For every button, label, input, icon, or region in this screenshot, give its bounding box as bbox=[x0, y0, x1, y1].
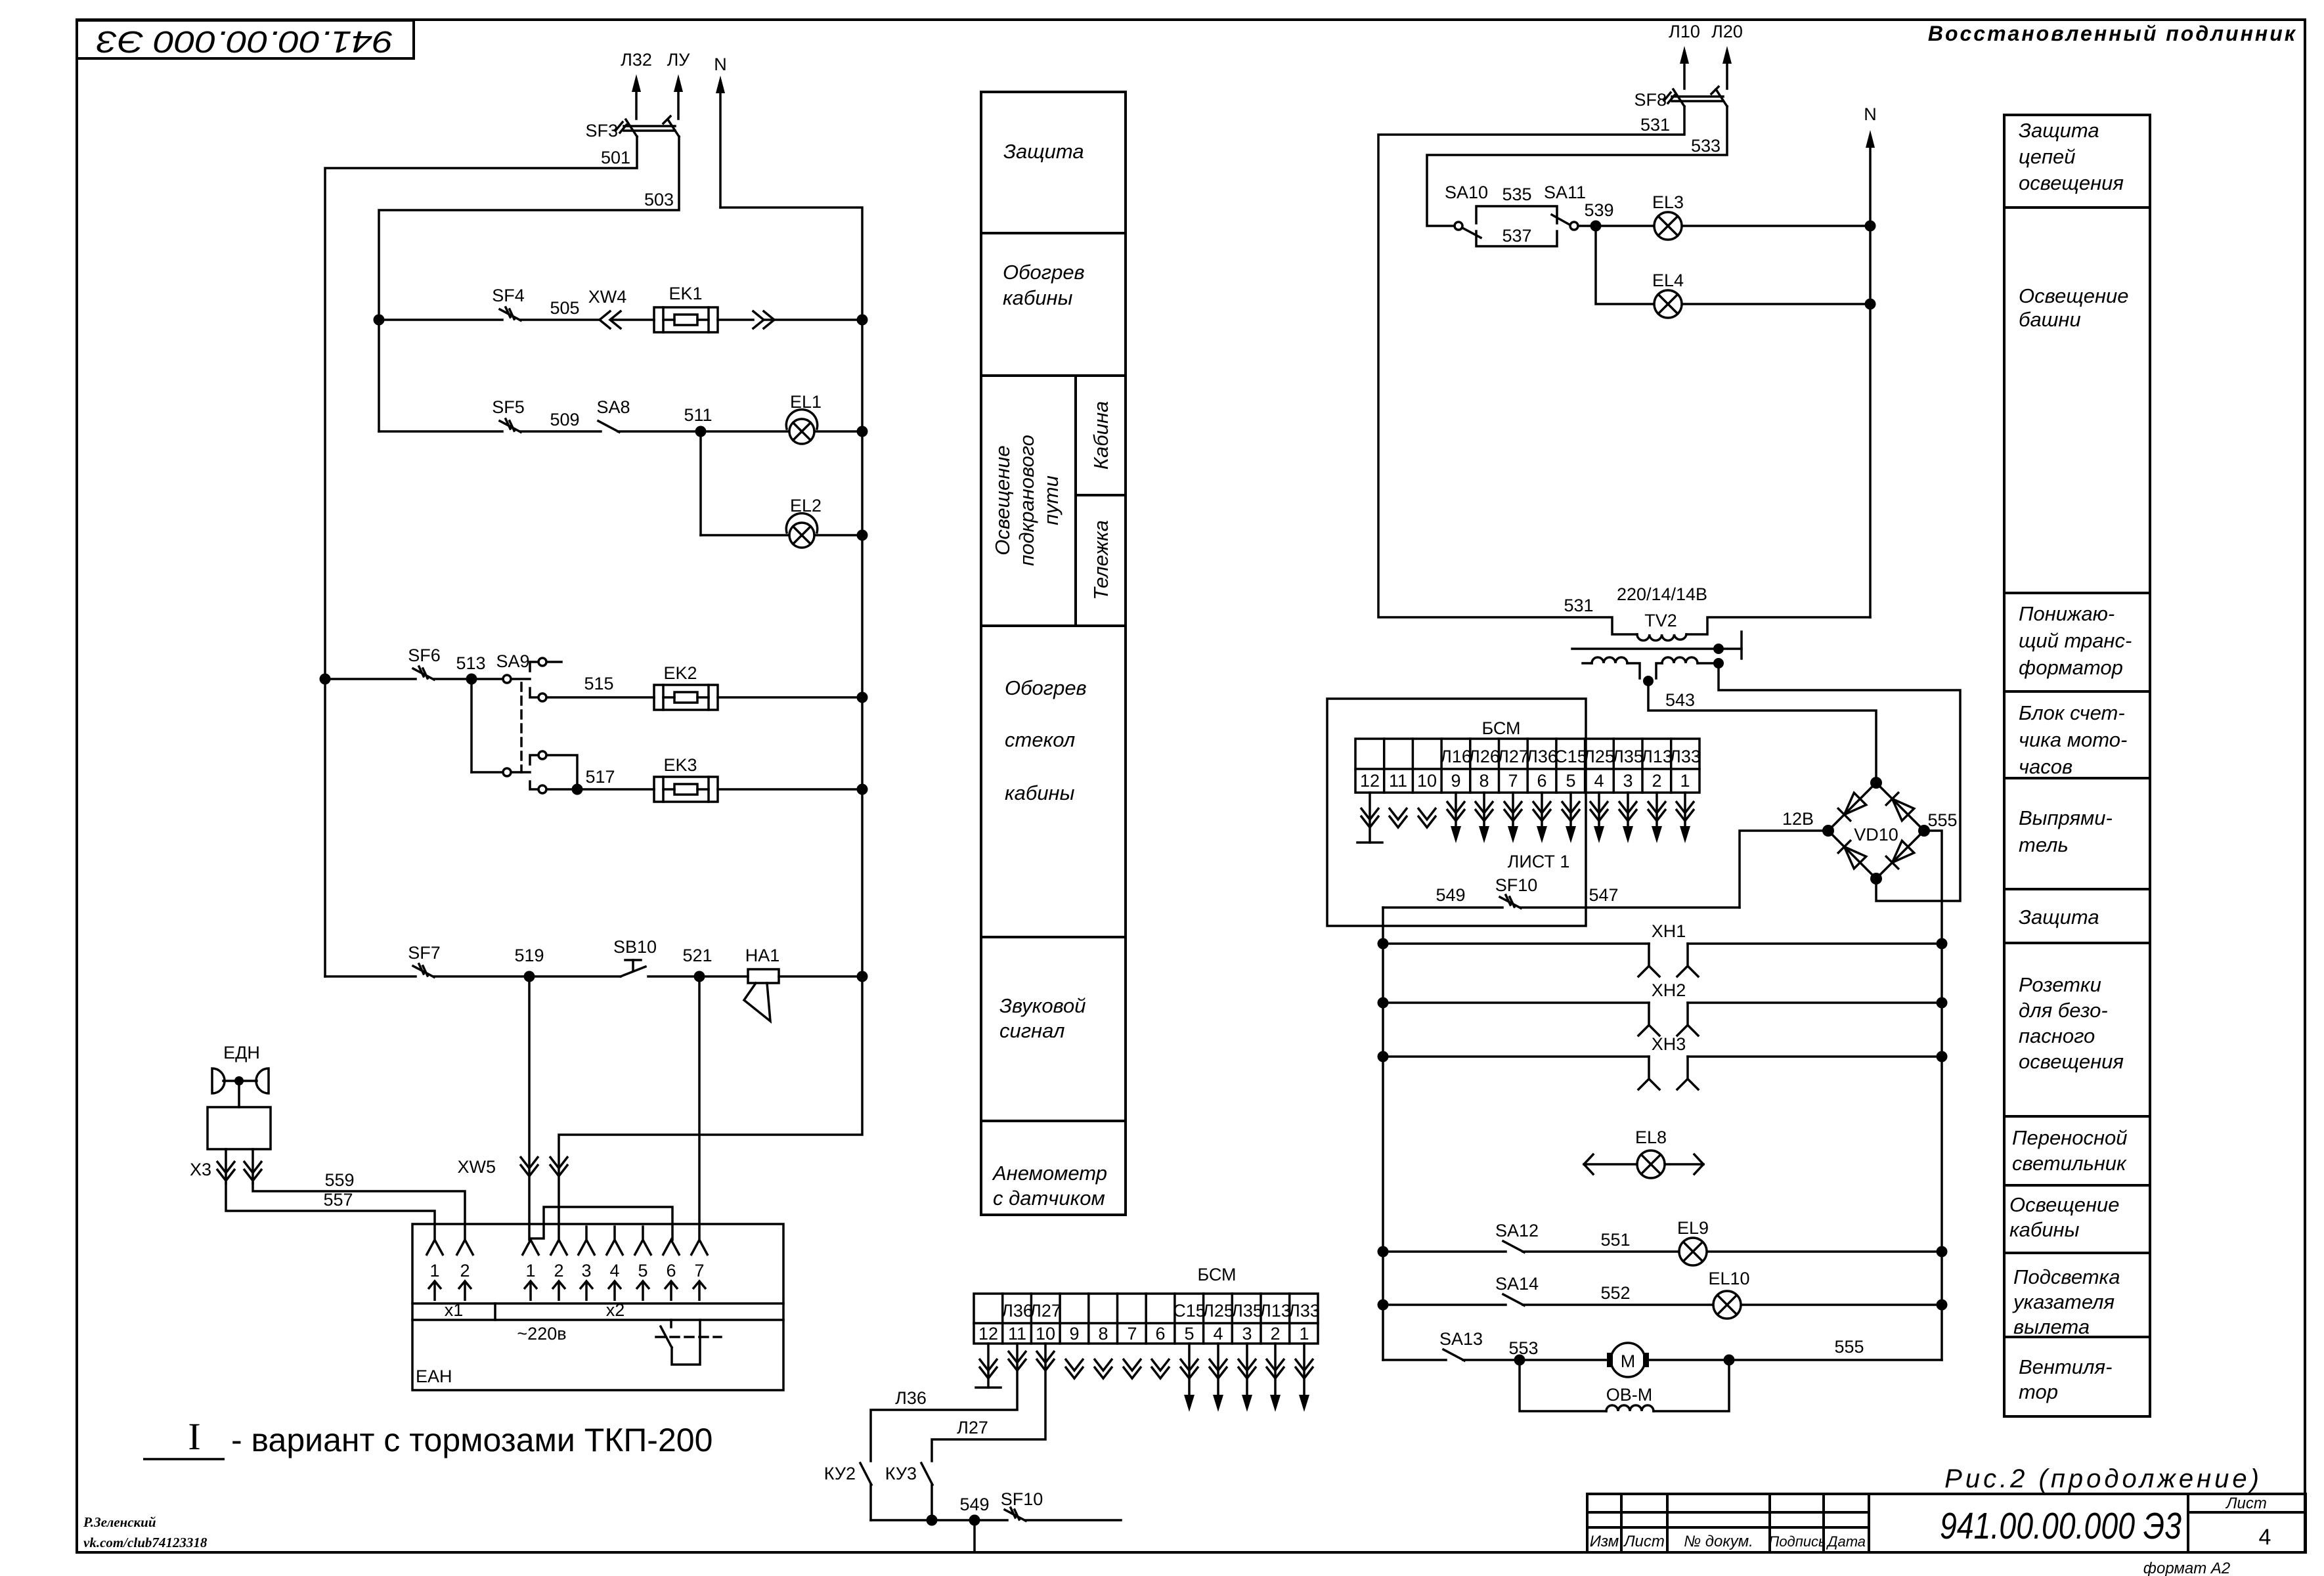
svg-text:2: 2 bbox=[1652, 771, 1661, 791]
svg-text:тор: тор bbox=[2019, 1380, 2058, 1403]
svg-text:№ докум.: № докум. bbox=[1684, 1533, 1753, 1550]
svg-text:539: 539 bbox=[1584, 200, 1613, 220]
rail 535 bbox=[1476, 206, 1557, 223]
svg-text:Подсветка: Подсветка bbox=[2013, 1265, 2120, 1288]
svg-text:XH3: XH3 bbox=[1652, 1034, 1686, 1054]
junction node (2106,1609) bbox=[1378, 1051, 1389, 1062]
pin 12 ground bbox=[1357, 793, 1382, 843]
wire N to right rail bbox=[559, 208, 862, 1240]
svg-text:стекол: стекол bbox=[1005, 728, 1075, 751]
svg-text:941.00.00.000 Э3: 941.00.00.000 Э3 bbox=[96, 25, 393, 59]
svg-text:Рис.2 (продолжение): Рис.2 (продолжение) bbox=[1944, 1464, 2262, 1493]
svg-text:543: 543 bbox=[1665, 690, 1695, 710]
svg-text:часов: часов bbox=[2019, 755, 2072, 778]
svg-text:5: 5 bbox=[638, 1261, 647, 1280]
junction node (1313,657) bbox=[857, 426, 868, 437]
svg-text:EL3: EL3 bbox=[1652, 192, 1684, 212]
svg-text:4: 4 bbox=[609, 1261, 619, 1280]
pins 9..1 stems with arrows bbox=[1456, 793, 1685, 829]
svg-text:форматор: форматор bbox=[2019, 656, 2123, 679]
junction node (2106,1437) bbox=[1378, 938, 1389, 950]
node КУ3 / bus 549 bbox=[927, 1515, 938, 1526]
node Л10 (arrow up) bbox=[1683, 62, 1686, 89]
svg-text:С15: С15 bbox=[1173, 1301, 1206, 1321]
pin 12 ground bbox=[976, 1344, 1001, 1388]
svg-text:549: 549 bbox=[959, 1495, 989, 1514]
svg-text:Л10: Л10 bbox=[1669, 22, 1700, 41]
svg-text:553: 553 bbox=[1508, 1338, 1538, 1358]
svg-text:щий транс-: щий транс- bbox=[2019, 629, 2132, 652]
svg-text:светильник: светильник bbox=[2012, 1152, 2127, 1175]
svg-text:511: 511 bbox=[684, 405, 712, 425]
svg-text:EL9: EL9 bbox=[1677, 1218, 1709, 1238]
svg-text:1: 1 bbox=[1299, 1324, 1309, 1344]
diode top-left bbox=[1845, 793, 1866, 814]
svg-text:Звуковой: Звуковой bbox=[999, 994, 1086, 1017]
branch SA13 / fan motor bbox=[1383, 1359, 1446, 1361]
lamp EL3 bbox=[1654, 212, 1682, 240]
transformer TV2 secondary right bbox=[1656, 663, 1662, 678]
branch SF7 horn: wire 519/521 bbox=[325, 975, 416, 978]
transformer TV2 primary bbox=[1637, 634, 1686, 640]
node on left rail at SF6 bbox=[320, 674, 331, 685]
svg-text:Р.Зеленский: Р.Зеленский bbox=[83, 1514, 156, 1530]
svg-text:10: 10 bbox=[1417, 771, 1437, 791]
wire 503 bbox=[379, 137, 679, 431]
svg-text:Розетки: Розетки bbox=[2019, 973, 2101, 996]
svg-text:ЕДН: ЕДН bbox=[223, 1043, 260, 1062]
svg-text:ЛУ: ЛУ bbox=[667, 50, 691, 70]
svg-text:ЕАН: ЕАН bbox=[416, 1367, 452, 1386]
right function table bbox=[2004, 115, 2150, 1416]
field winding ОВ-М bbox=[1520, 1360, 1606, 1411]
svg-text:941.00.00.000 Э3: 941.00.00.000 Э3 bbox=[1940, 1505, 2181, 1547]
svg-text:515: 515 bbox=[584, 674, 613, 693]
transformer TV2 junction dots bbox=[1590, 221, 1876, 687]
svg-text:Защита: Защита bbox=[2019, 119, 2099, 142]
ЕАН block bbox=[412, 1207, 783, 1390]
svg-text:пути: пути bbox=[1040, 475, 1063, 525]
leads to connector X3 bbox=[225, 1149, 227, 1183]
svg-text:башни: башни bbox=[2019, 308, 2081, 331]
junction dots left circuit bbox=[320, 315, 868, 982]
svg-text:EL8: EL8 bbox=[1635, 1127, 1667, 1147]
node N (arrow up, left circuit neutral) bbox=[719, 91, 722, 208]
svg-text:SA10: SA10 bbox=[1445, 183, 1488, 202]
switch SA11 bbox=[1552, 215, 1569, 225]
svg-text:Л36: Л36 bbox=[895, 1388, 927, 1408]
branch EK1: wire 505 bbox=[379, 318, 502, 321]
branch EL1: wire 509 bbox=[379, 430, 502, 433]
connector table БСМ upper bbox=[1355, 739, 1699, 793]
svg-text:Л25: Л25 bbox=[1583, 747, 1615, 766]
svg-text:SF10: SF10 bbox=[1495, 875, 1538, 895]
svg-text:505: 505 bbox=[550, 298, 579, 318]
svg-text:513: 513 bbox=[456, 653, 485, 673]
heater EK3 bbox=[654, 777, 718, 802]
svg-text:EL10: EL10 bbox=[1708, 1269, 1749, 1288]
wire 515 bbox=[547, 696, 654, 699]
svg-text:12: 12 bbox=[1360, 771, 1380, 791]
svg-text:6: 6 bbox=[1155, 1324, 1165, 1344]
svg-text:517: 517 bbox=[585, 767, 615, 787]
svg-text:521: 521 bbox=[682, 946, 712, 965]
svg-text:Восстановленный подлинник: Восстановленный подлинник bbox=[1928, 22, 2297, 45]
svg-text:М: М bbox=[1621, 1351, 1636, 1371]
svg-text:vk.com/club74123318: vk.com/club74123318 bbox=[83, 1535, 208, 1550]
svg-text:4: 4 bbox=[1594, 771, 1604, 791]
circuit breaker SF4 bbox=[500, 309, 521, 320]
svg-text:Выпрями-: Выпрями- bbox=[2019, 806, 2113, 829]
wire 539 to lamps bbox=[1578, 225, 1654, 227]
anemometer ЕДН symbol bbox=[212, 1068, 225, 1093]
circuit breaker SF5 bbox=[500, 421, 521, 432]
brake contact inside ЕАН bbox=[670, 1320, 672, 1327]
svg-text:SF7: SF7 bbox=[408, 943, 441, 963]
socket XH3 bbox=[1383, 1055, 1649, 1058]
wire 531 bbox=[1378, 106, 1684, 634]
wire Л27 to КУ3 bbox=[932, 1344, 1045, 1461]
svg-text:555: 555 bbox=[1927, 810, 1957, 830]
svg-text:Л36: Л36 bbox=[1001, 1301, 1033, 1321]
svg-text:Вентиля-: Вентиля- bbox=[2019, 1355, 2112, 1378]
svg-text:7: 7 bbox=[694, 1261, 704, 1280]
lamp EL10 bbox=[1713, 1291, 1741, 1319]
svg-text:SB10: SB10 bbox=[613, 937, 657, 957]
svg-text:Блок счет-: Блок счет- bbox=[2019, 701, 2125, 724]
node TV2 secondary right / core bbox=[1713, 644, 1724, 654]
node 517 bbox=[572, 784, 583, 795]
svg-text:547: 547 bbox=[1589, 885, 1618, 905]
svg-text:4: 4 bbox=[1213, 1324, 1223, 1344]
svg-text:кабины: кабины bbox=[1005, 781, 1075, 804]
node 543 (TV2 centre tap) bbox=[1643, 676, 1654, 686]
node N right (arrow up) bbox=[1869, 146, 1872, 617]
svg-text:Обогрев: Обогрев bbox=[1003, 261, 1085, 284]
junction node (1313,1202) bbox=[857, 784, 868, 795]
svg-text:Освещение: Освещение bbox=[2009, 1193, 2120, 1216]
svg-text:EL2: EL2 bbox=[790, 496, 822, 515]
svg-text:9: 9 bbox=[1069, 1324, 1079, 1344]
svg-text:Л36: Л36 bbox=[1526, 747, 1558, 766]
node 511 bbox=[695, 426, 707, 437]
svg-text:503: 503 bbox=[644, 190, 674, 209]
svg-text:Изм: Изм bbox=[1590, 1533, 1619, 1550]
junction node (2957,1987) bbox=[1937, 1300, 1948, 1311]
svg-text:Л13: Л13 bbox=[1641, 747, 1673, 766]
svg-text:10: 10 bbox=[1036, 1324, 1055, 1344]
junction node (2957,1906) bbox=[1937, 1246, 1948, 1258]
switch SA8 bbox=[598, 421, 619, 432]
svg-text:~220в: ~220в bbox=[517, 1324, 566, 1344]
svg-text:Л13: Л13 bbox=[1260, 1301, 1291, 1321]
circuit breaker SF10 (bottom) bbox=[1005, 1510, 1026, 1521]
pins 9..6 chevrons bbox=[1065, 1359, 1084, 1378]
svg-text:Л20: Л20 bbox=[1711, 22, 1743, 41]
svg-text:531: 531 bbox=[1640, 115, 1670, 135]
contact КУ3 bbox=[921, 1463, 932, 1485]
svg-text:кабины: кабины bbox=[2009, 1218, 2080, 1241]
svg-text:3: 3 bbox=[1623, 771, 1633, 791]
block БСМ outline bbox=[1327, 699, 1586, 926]
node 539 bbox=[1590, 221, 1602, 232]
svg-text:Защита: Защита bbox=[1003, 140, 1084, 163]
svg-text:Лист: Лист bbox=[2225, 1495, 2267, 1512]
svg-text:x1: x1 bbox=[445, 1300, 464, 1320]
svg-text:4: 4 bbox=[2259, 1525, 2271, 1550]
svg-text:Л35: Л35 bbox=[1231, 1301, 1263, 1321]
wire 555 output bbox=[1928, 831, 1942, 1360]
switch SA9 (upper deck) bbox=[475, 678, 502, 680]
circuit breaker SF10 bbox=[1500, 897, 1521, 908]
circuit breaker SF7 bbox=[413, 966, 434, 977]
wire 521 down to ЕАН pin bbox=[698, 976, 701, 1240]
svg-text:2: 2 bbox=[554, 1261, 563, 1280]
svg-text:519: 519 bbox=[514, 946, 544, 965]
svg-text:Л33: Л33 bbox=[1669, 747, 1701, 766]
svg-text:Л35: Л35 bbox=[1612, 747, 1644, 766]
rectifier VD10 diamond bbox=[1828, 783, 1924, 879]
wire 549 down to frame bbox=[973, 1520, 976, 1552]
motor M bbox=[1611, 1343, 1645, 1377]
svg-text:ЛИСТ 1: ЛИСТ 1 bbox=[1508, 852, 1570, 871]
svg-text:12В: 12В bbox=[1782, 809, 1814, 829]
junction node (2106,1906) bbox=[1378, 1246, 1389, 1258]
svg-text:12: 12 bbox=[978, 1324, 998, 1344]
svg-text:Л26: Л26 bbox=[1468, 747, 1500, 766]
svg-text:Защита: Защита bbox=[2019, 906, 2099, 929]
dashed link SA9 bbox=[520, 683, 523, 772]
svg-text:Обогрев: Обогрев bbox=[1005, 676, 1087, 699]
svg-text:SF4: SF4 bbox=[492, 286, 525, 305]
wire Л36 to КУ2 bbox=[860, 1344, 1121, 1552]
junction node (1313,1062) bbox=[857, 692, 868, 703]
svg-text:освещения: освещения bbox=[2019, 171, 2124, 194]
switch SA9 (lower deck) bbox=[471, 771, 502, 774]
circuit breaker SF6 bbox=[413, 668, 434, 680]
svg-text:вылета: вылета bbox=[2013, 1315, 2090, 1338]
svg-text:11: 11 bbox=[1008, 1324, 1026, 1344]
svg-text:11: 11 bbox=[1389, 771, 1407, 791]
connector X3 chevrons bbox=[217, 1161, 235, 1181]
svg-text:с датчиком: с датчиком bbox=[993, 1187, 1105, 1210]
svg-text:TV2: TV2 bbox=[1644, 611, 1677, 630]
svg-text:КУ3: КУ3 bbox=[885, 1464, 917, 1483]
svg-text:тель: тель bbox=[2019, 833, 2069, 856]
svg-text:5: 5 bbox=[1184, 1324, 1194, 1344]
svg-text:559: 559 bbox=[324, 1170, 354, 1190]
svg-text:8: 8 bbox=[1098, 1324, 1108, 1344]
svg-text:SA14: SA14 bbox=[1495, 1274, 1539, 1294]
wire 557 bbox=[226, 1183, 435, 1240]
junction node (2957,1609) bbox=[1937, 1051, 1948, 1062]
svg-text:указателя: указателя bbox=[2012, 1290, 2115, 1313]
wire 543 (center tap to VD10 top) bbox=[1648, 683, 1876, 783]
svg-text:2: 2 bbox=[1270, 1324, 1280, 1344]
node 503/EK1 bbox=[374, 315, 385, 326]
svg-text:EL1: EL1 bbox=[790, 392, 822, 412]
svg-text:Л25: Л25 bbox=[1202, 1301, 1234, 1321]
bus 549 bbox=[871, 1519, 1007, 1521]
svg-text:XW5: XW5 bbox=[457, 1157, 496, 1177]
heater EK1 bbox=[654, 307, 718, 332]
svg-text:1: 1 bbox=[429, 1261, 439, 1280]
svg-text:Анемометр: Анемометр bbox=[992, 1162, 1107, 1185]
ЕАН pins bbox=[426, 1240, 443, 1256]
svg-text:Кабина: Кабина bbox=[1089, 401, 1112, 470]
svg-text:С15: С15 bbox=[1554, 747, 1587, 766]
svg-text:XH1: XH1 bbox=[1652, 921, 1686, 941]
wire 501 bbox=[325, 137, 637, 976]
svg-text:551: 551 bbox=[1600, 1230, 1630, 1250]
heater EK2 bbox=[654, 685, 718, 710]
svg-text:533: 533 bbox=[1691, 136, 1721, 156]
junction node (2848,344) bbox=[1865, 221, 1876, 232]
svg-text:Освещение: Освещение bbox=[991, 445, 1014, 556]
lamp EL9 bbox=[1679, 1238, 1707, 1265]
svg-text:Переносной: Переносной bbox=[2012, 1126, 2128, 1149]
node 549 bbox=[969, 1515, 980, 1526]
horn HA1 bbox=[748, 969, 779, 983]
svg-text:подкранового: подкранового bbox=[1015, 435, 1038, 566]
svg-text:Л27: Л27 bbox=[957, 1418, 988, 1437]
wire secondary right to VD10 bottom bbox=[1719, 663, 1960, 901]
branch SF6 / SA9 heaters bbox=[325, 678, 416, 680]
node 521 bbox=[694, 971, 705, 982]
node 553 bbox=[1514, 1355, 1525, 1366]
svg-text:SA11: SA11 bbox=[1544, 183, 1586, 202]
svg-text:x2: x2 bbox=[606, 1300, 625, 1320]
wire 513 down to lower deck bbox=[470, 679, 473, 772]
svg-text:КУ2: КУ2 bbox=[824, 1464, 856, 1483]
junction node (1313,1487) bbox=[857, 971, 868, 982]
socket XH2 bbox=[1383, 1001, 1649, 1004]
svg-text:SF5: SF5 bbox=[492, 397, 525, 417]
svg-text:формат А2: формат А2 bbox=[2143, 1560, 2231, 1576]
svg-text:X3: X3 bbox=[190, 1160, 211, 1179]
svg-text:557: 557 bbox=[323, 1190, 353, 1210]
junction node (2957,1527) bbox=[1937, 997, 1948, 1009]
connector XW5 chevrons bbox=[520, 1156, 538, 1176]
svg-text:1: 1 bbox=[525, 1261, 535, 1280]
svg-text:5: 5 bbox=[1566, 771, 1575, 791]
junction node (2848,463) bbox=[1865, 299, 1876, 310]
contact КУ2 bbox=[860, 1463, 871, 1485]
svg-text:EL4: EL4 bbox=[1652, 271, 1684, 290]
svg-text:Л32: Л32 bbox=[621, 50, 652, 70]
svg-text:Дата: Дата bbox=[1826, 1533, 1866, 1550]
svg-text:N: N bbox=[1864, 104, 1877, 124]
svg-text:SF6: SF6 bbox=[408, 646, 441, 665]
diode bottom-right bbox=[1893, 841, 1914, 862]
svg-text:сигнал: сигнал bbox=[999, 1019, 1064, 1042]
svg-text:9: 9 bbox=[1451, 771, 1460, 791]
svg-text:7: 7 bbox=[1508, 771, 1518, 791]
svg-text:7: 7 bbox=[1127, 1324, 1137, 1344]
junction node (2106,1527) bbox=[1378, 997, 1389, 1009]
middle function table bbox=[981, 92, 1126, 1215]
circuit breaker SF8 (2-pole) bbox=[1673, 89, 1684, 106]
svg-text:6: 6 bbox=[666, 1261, 676, 1280]
svg-text:2: 2 bbox=[460, 1261, 470, 1280]
wire to EL4 bbox=[1596, 226, 1654, 304]
svg-text:552: 552 bbox=[1600, 1283, 1630, 1303]
svg-text:Подпись: Подпись bbox=[1768, 1533, 1826, 1550]
push button SB10 bbox=[621, 967, 646, 976]
svg-text:220/14/14В: 220/14/14В bbox=[1617, 584, 1707, 604]
svg-text:XH2: XH2 bbox=[1652, 980, 1686, 1000]
lamp EL4 bbox=[1654, 290, 1682, 318]
svg-text:SA8: SA8 bbox=[596, 397, 630, 417]
svg-text:8: 8 bbox=[1479, 771, 1489, 791]
svg-text:Л16: Л16 bbox=[1440, 747, 1472, 766]
svg-text:EK3: EK3 bbox=[663, 755, 697, 775]
svg-text:555: 555 bbox=[1834, 1337, 1864, 1357]
wire 559 bbox=[253, 1183, 465, 1240]
svg-text:- вариант с тормозами ТКП-200: - вариант с тормозами ТКП-200 bbox=[231, 1422, 713, 1458]
svg-text:537: 537 bbox=[1502, 226, 1531, 246]
svg-text:для безо-: для безо- bbox=[2019, 999, 2108, 1022]
svg-text:535: 535 bbox=[1502, 185, 1531, 204]
node TV2 secondary right lead bbox=[1713, 658, 1724, 668]
svg-text:ОВ-М: ОВ-М bbox=[1606, 1385, 1653, 1405]
svg-text:6: 6 bbox=[1537, 771, 1546, 791]
svg-text:3: 3 bbox=[1242, 1324, 1252, 1344]
junction node (1313,815) bbox=[857, 530, 868, 541]
wire 511 down bbox=[699, 431, 702, 535]
svg-text:N: N bbox=[714, 55, 727, 74]
lamp EL2 branch bbox=[701, 534, 787, 536]
wire 12В output bbox=[1740, 831, 1824, 908]
screen terminal bar bbox=[1719, 647, 1742, 650]
switch SA10 bbox=[1455, 222, 1462, 230]
rail 537 bbox=[1476, 231, 1557, 246]
wire XW5 left branch (519 down to ЕАН pin) bbox=[528, 976, 531, 1240]
node 519 bbox=[524, 971, 535, 982]
svg-text:3: 3 bbox=[581, 1261, 591, 1280]
svg-text:освещения: освещения bbox=[2019, 1050, 2124, 1073]
wire 533 bbox=[1427, 106, 1727, 226]
svg-text:SA12: SA12 bbox=[1495, 1221, 1539, 1240]
svg-text:чика мото-: чика мото- bbox=[2019, 728, 2127, 751]
transformer TV2 core bbox=[1572, 647, 1719, 650]
svg-text:Л27: Л27 bbox=[1497, 747, 1529, 766]
junction node (2633,2071) bbox=[1724, 1355, 1735, 1366]
diode top-right bbox=[1893, 799, 1914, 821]
connector XW4 (chevrons) bbox=[600, 311, 610, 328]
wire 549/547 with SF10 bbox=[1383, 895, 1740, 1360]
svg-text:SA9: SA9 bbox=[496, 651, 529, 671]
svg-text:Л27: Л27 bbox=[1030, 1301, 1061, 1321]
svg-text:пасного: пасного bbox=[2019, 1024, 2095, 1047]
svg-text:VD10: VD10 bbox=[1854, 825, 1898, 844]
socket XH1 bbox=[1383, 942, 1649, 945]
junction node (2106,1987) bbox=[1378, 1300, 1389, 1311]
svg-text:I: I bbox=[188, 1415, 200, 1458]
svg-text:501: 501 bbox=[601, 148, 630, 167]
title box top-left (rotated stamp) bbox=[77, 20, 414, 58]
svg-text:SF8: SF8 bbox=[1634, 90, 1667, 110]
transformer TV2 secondary left bbox=[1583, 662, 1592, 665]
svg-text:Тележка: Тележка bbox=[1089, 520, 1112, 600]
pins 11,10 chevrons bbox=[1389, 808, 1407, 827]
lamp EL1 bbox=[786, 410, 817, 444]
diode bottom-left bbox=[1845, 847, 1866, 869]
jumper pin1 to pin6 bbox=[531, 1207, 672, 1240]
branch SA12 / EL9 bbox=[1383, 1250, 1506, 1253]
connector (chevrons right) bbox=[753, 311, 764, 328]
node 513 bbox=[466, 674, 477, 685]
